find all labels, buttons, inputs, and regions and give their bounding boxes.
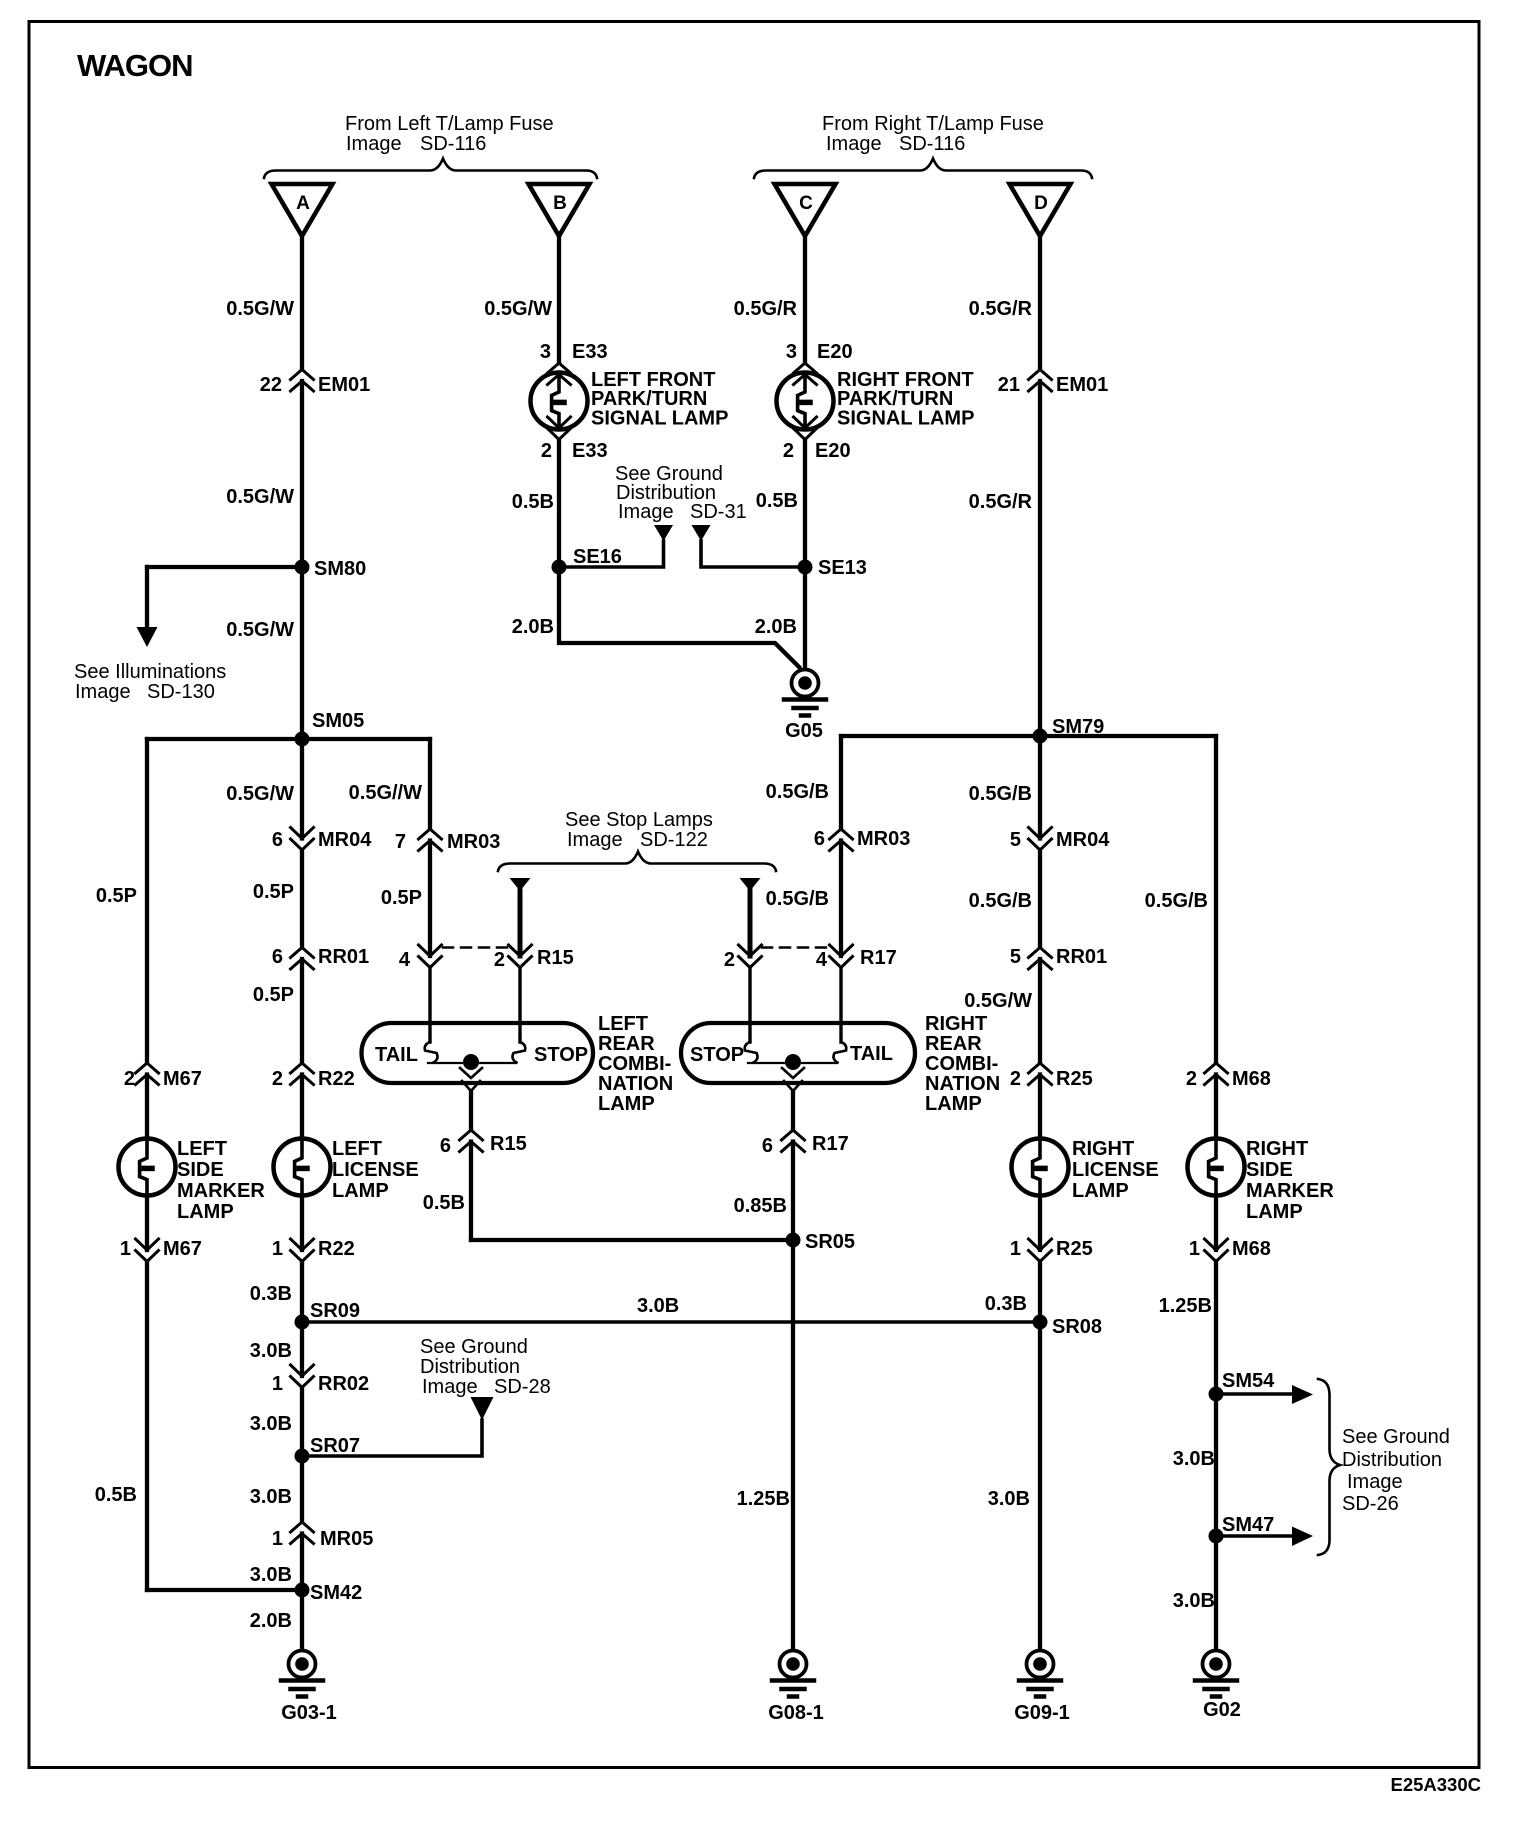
svg-text:6: 6 bbox=[440, 1135, 451, 1157]
wire A EM01 to MR04 bbox=[300, 381, 304, 839]
junction SM05 bbox=[295, 732, 310, 747]
svg-text:REAR: REAR bbox=[598, 1033, 655, 1055]
svg-text:MARKER: MARKER bbox=[177, 1180, 265, 1202]
connector R15 pin 4 bbox=[419, 945, 442, 968]
wire A lamp to R22 pin1 bbox=[300, 1195, 304, 1250]
wire A RR01 to R22 bbox=[300, 959, 304, 1063]
connector E33 pin 3 bbox=[548, 363, 571, 385]
connector E33 pin 2 bbox=[548, 417, 571, 440]
tail terminal hook right box bbox=[834, 1042, 847, 1063]
svg-text:0.5G/B: 0.5G/B bbox=[1145, 890, 1208, 912]
svg-text:2: 2 bbox=[494, 949, 505, 971]
wire A R22 to license lamp bbox=[300, 1075, 304, 1140]
arrow from stop lamps right bbox=[740, 878, 761, 891]
junction dot left box bbox=[463, 1054, 479, 1070]
svg-text:Image: Image bbox=[826, 133, 882, 155]
wire SE16 2.0B to G05 bbox=[559, 567, 799, 667]
svg-text:LAMP: LAMP bbox=[1246, 1201, 1303, 1223]
svg-text:0.5G/W: 0.5G/W bbox=[964, 990, 1032, 1012]
wire A RR02 to MR05 bbox=[300, 1388, 304, 1523]
svg-text:SR09: SR09 bbox=[310, 1300, 360, 1322]
svg-text:B: B bbox=[553, 193, 567, 214]
ground G05 bbox=[784, 670, 826, 716]
wire D lamp to R25 pin1 bbox=[1038, 1195, 1042, 1250]
svg-text:0.5G/R: 0.5G/R bbox=[969, 298, 1033, 320]
svg-text:From Left T/Lamp Fuse: From Left T/Lamp Fuse bbox=[345, 113, 554, 135]
brace from Right T/Lamp Fuse bbox=[754, 159, 1092, 179]
junction dot right box bbox=[785, 1054, 801, 1070]
svg-text:RR02: RR02 bbox=[318, 1373, 369, 1395]
svg-text:E25A330C: E25A330C bbox=[1390, 1774, 1481, 1795]
svg-text:2.0B: 2.0B bbox=[512, 616, 554, 638]
svg-text:5: 5 bbox=[1010, 946, 1021, 968]
svg-text:2: 2 bbox=[541, 440, 552, 462]
wire B triangle to E33 bbox=[557, 236, 561, 363]
svg-text:SD-28: SD-28 bbox=[494, 1376, 551, 1398]
svg-text:SD-122: SD-122 bbox=[640, 829, 708, 851]
wire stop stub right bbox=[748, 891, 753, 956]
connector M68 pin 2 bbox=[1205, 1063, 1228, 1085]
tail terminal hook left box bbox=[425, 1042, 438, 1063]
wire R15 pin6 down bbox=[469, 1142, 473, 1241]
lamp RIGHT SIDE MARKER LAMP bbox=[1188, 1139, 1245, 1196]
svg-text:1.25B: 1.25B bbox=[737, 1488, 790, 1510]
svg-text:RIGHT: RIGHT bbox=[1072, 1138, 1134, 1160]
connector R15 pin 6 bbox=[460, 1130, 483, 1152]
terminal bus line right box bbox=[748, 1062, 837, 1064]
svg-text:E20: E20 bbox=[817, 341, 853, 363]
arrow SM54 to SD-26 bbox=[1292, 1385, 1313, 1404]
svg-text:0.85B: 0.85B bbox=[734, 1195, 787, 1217]
wire D EM01 to SM79 bbox=[1038, 381, 1042, 839]
svg-text:1: 1 bbox=[272, 1373, 283, 1395]
svg-text:E20: E20 bbox=[815, 440, 851, 462]
connector R25 pin 1 bbox=[1029, 1239, 1052, 1262]
svg-text:R25: R25 bbox=[1056, 1238, 1093, 1260]
svg-text:0.5P: 0.5P bbox=[96, 885, 137, 907]
svg-text:SM54: SM54 bbox=[1222, 1370, 1275, 1392]
svg-text:Image: Image bbox=[75, 681, 131, 703]
svg-text:3.0B: 3.0B bbox=[988, 1488, 1030, 1510]
wire marker lamp to M68 pin1 bbox=[1214, 1195, 1218, 1250]
svg-text:RIGHT: RIGHT bbox=[925, 1013, 987, 1035]
svg-text:0.5G/W: 0.5G/W bbox=[226, 486, 294, 508]
svg-text:LAMP: LAMP bbox=[598, 1093, 655, 1115]
dashed connector link right bbox=[762, 946, 828, 949]
svg-text:E33: E33 bbox=[572, 440, 608, 462]
svg-text:R15: R15 bbox=[537, 947, 574, 969]
connector triangle D bbox=[1010, 184, 1071, 236]
svg-text:G09-1: G09-1 bbox=[1014, 1702, 1070, 1724]
lamp LEFT SIDE MARKER LAMP bbox=[119, 1139, 176, 1196]
svg-text:SR08: SR08 bbox=[1052, 1316, 1102, 1338]
chevrons below dot right box bbox=[782, 1068, 804, 1091]
brace from Left T/Lamp Fuse bbox=[264, 159, 597, 179]
svg-text:2: 2 bbox=[272, 1068, 283, 1090]
svg-text:M67: M67 bbox=[163, 1068, 202, 1090]
wire D R25 to license lamp bbox=[1038, 1075, 1042, 1140]
svg-text:Image: Image bbox=[618, 501, 674, 523]
svg-text:0.3B: 0.3B bbox=[250, 1283, 292, 1305]
connector MR03 pin 6 bbox=[830, 829, 853, 851]
wire SM47 stub bbox=[1216, 1534, 1292, 1538]
wire SM05 horizontal bbox=[147, 737, 430, 741]
connector RR01 pin 6 bbox=[291, 948, 314, 970]
connector R22 pin 2 bbox=[291, 1063, 314, 1085]
wire M68 to marker lamp bbox=[1214, 1075, 1218, 1140]
junction SE13 bbox=[798, 560, 813, 575]
svg-text:MR04: MR04 bbox=[1056, 829, 1110, 851]
wire D RR01 to R25 bbox=[1038, 959, 1042, 1063]
svg-text:See Ground: See Ground bbox=[420, 1336, 528, 1358]
svg-text:0.5G/B: 0.5G/B bbox=[969, 783, 1032, 805]
svg-text:SM47: SM47 bbox=[1222, 1514, 1274, 1536]
svg-text:SD-26: SD-26 bbox=[1342, 1493, 1399, 1515]
svg-text:0.5G/R: 0.5G/R bbox=[734, 298, 798, 320]
svg-text:LICENSE: LICENSE bbox=[1072, 1159, 1159, 1181]
svg-text:LEFT: LEFT bbox=[177, 1138, 227, 1160]
svg-text:4: 4 bbox=[816, 949, 828, 971]
svg-text:SIDE: SIDE bbox=[177, 1159, 224, 1181]
wire R17 pin2 into stop terminal bbox=[748, 968, 751, 1043]
svg-text:EM01: EM01 bbox=[318, 374, 370, 396]
svg-text:C: C bbox=[799, 193, 813, 214]
wire stop stub left bbox=[518, 891, 523, 956]
svg-text:0.5P: 0.5P bbox=[253, 881, 294, 903]
svg-text:7: 7 bbox=[395, 831, 406, 853]
svg-text:Distribution: Distribution bbox=[420, 1356, 520, 1378]
lamp box LEFT REAR COMBINATION bbox=[362, 1023, 594, 1083]
wire SE16 to ground stub 1 bbox=[559, 541, 664, 567]
junction SE16 bbox=[552, 560, 567, 575]
connector M67 pin 1 bbox=[136, 1239, 159, 1262]
wire A triangle to EM01 bbox=[300, 236, 304, 370]
svg-text:1: 1 bbox=[1010, 1238, 1021, 1260]
connector R15 pin 2 bbox=[509, 945, 532, 968]
svg-text:SIGNAL LAMP: SIGNAL LAMP bbox=[591, 408, 728, 430]
svg-text:21: 21 bbox=[998, 374, 1020, 396]
svg-text:LAMP: LAMP bbox=[332, 1180, 389, 1202]
wire marker lamp to M67 pin1 bbox=[145, 1195, 149, 1250]
lamp RIGHT FRONT PARK/TURN SIGNAL LAMP bbox=[777, 373, 834, 430]
svg-text:MR03: MR03 bbox=[447, 831, 500, 853]
wire C triangle to E20 bbox=[803, 236, 807, 363]
svg-text:MR03: MR03 bbox=[857, 828, 910, 850]
connector E20 pin 3 bbox=[794, 363, 817, 385]
wire SR09 to SR08 3.0B bbox=[302, 1320, 1040, 1323]
svg-text:3.0B: 3.0B bbox=[250, 1413, 292, 1435]
svg-text:TAIL: TAIL bbox=[375, 1044, 418, 1066]
svg-text:LAMP: LAMP bbox=[1072, 1180, 1129, 1202]
svg-text:0.5G/W: 0.5G/W bbox=[226, 619, 294, 641]
svg-text:R17: R17 bbox=[860, 947, 897, 969]
svg-text:STOP: STOP bbox=[534, 1044, 588, 1066]
svg-text:Distribution: Distribution bbox=[1342, 1449, 1442, 1471]
svg-text:R15: R15 bbox=[490, 1133, 527, 1155]
svg-text:SR05: SR05 bbox=[805, 1231, 855, 1253]
junction SM42 bbox=[295, 1583, 310, 1598]
connector MR04 pin 6 bbox=[291, 828, 314, 851]
connector R17 pin 6 bbox=[782, 1130, 805, 1152]
brace see stop lamps bbox=[498, 852, 776, 872]
stop terminal hook left box bbox=[513, 1042, 526, 1063]
connector triangle B bbox=[529, 184, 590, 236]
svg-text:See Illuminations: See Illuminations bbox=[74, 661, 226, 683]
svg-text:SD-116: SD-116 bbox=[899, 133, 965, 155]
lamp LEFT LICENSE LAMP bbox=[274, 1139, 331, 1196]
svg-text:2: 2 bbox=[783, 440, 794, 462]
svg-text:R25: R25 bbox=[1056, 1068, 1093, 1090]
svg-text:COMBI-: COMBI- bbox=[925, 1053, 998, 1075]
dashed connector link left bbox=[443, 946, 509, 949]
wire D MR04 to RR01 bbox=[1038, 850, 1042, 948]
svg-text:LEFT: LEFT bbox=[598, 1013, 648, 1035]
svg-text:From Right T/Lamp Fuse: From Right T/Lamp Fuse bbox=[822, 113, 1044, 135]
svg-text:0.5B: 0.5B bbox=[423, 1192, 465, 1214]
connector R17 pin 2 bbox=[739, 945, 762, 968]
chevrons below dot left box bbox=[460, 1068, 482, 1091]
svg-text:SD-31: SD-31 bbox=[690, 501, 747, 523]
svg-text:3.0B: 3.0B bbox=[250, 1340, 292, 1362]
svg-text:MR05: MR05 bbox=[320, 1528, 373, 1550]
svg-text:0.5B: 0.5B bbox=[512, 491, 554, 513]
svg-text:Image: Image bbox=[422, 1376, 478, 1398]
svg-text:6: 6 bbox=[272, 829, 283, 851]
arrow SM47 to SD-26 bbox=[1292, 1527, 1313, 1547]
svg-text:M67: M67 bbox=[163, 1238, 202, 1260]
svg-text:1: 1 bbox=[272, 1528, 283, 1550]
wire left branch down to SM42 bbox=[145, 1262, 149, 1591]
arrow SD-31 stub 1 bbox=[654, 525, 673, 541]
svg-text:6: 6 bbox=[272, 946, 283, 968]
svg-text:STOP: STOP bbox=[690, 1044, 744, 1066]
svg-text:LICENSE: LICENSE bbox=[332, 1159, 419, 1181]
svg-text:SM05: SM05 bbox=[312, 710, 364, 732]
wire left branch SM05 down bbox=[145, 739, 149, 1063]
svg-text:5: 5 bbox=[1010, 829, 1021, 851]
svg-text:2: 2 bbox=[124, 1068, 135, 1090]
lamp LEFT FRONT PARK/TURN SIGNAL LAMP bbox=[531, 373, 588, 430]
svg-text:0.5G//W: 0.5G//W bbox=[349, 782, 422, 804]
svg-text:M68: M68 bbox=[1232, 1238, 1271, 1260]
connector EM01 pin 22 bbox=[291, 370, 314, 392]
svg-text:SIDE: SIDE bbox=[1246, 1159, 1293, 1181]
svg-text:See Stop Lamps: See Stop Lamps bbox=[565, 809, 713, 831]
svg-text:SM42: SM42 bbox=[310, 1582, 362, 1604]
wire box to R17 pin6 bbox=[791, 1091, 795, 1130]
junction SM79 bbox=[1033, 729, 1048, 744]
junction SR08 bbox=[1033, 1315, 1048, 1330]
svg-text:G05: G05 bbox=[785, 720, 823, 742]
wire M67 to marker lamp bbox=[145, 1075, 149, 1140]
svg-text:SD-116: SD-116 bbox=[420, 133, 486, 155]
svg-text:SR07: SR07 bbox=[310, 1435, 360, 1457]
wire right MR03 branch from SM79 bbox=[839, 736, 843, 829]
svg-text:3.0B: 3.0B bbox=[1173, 1590, 1215, 1612]
wire branch MR03 from SM05 bbox=[428, 739, 432, 829]
svg-text:3.0B: 3.0B bbox=[250, 1486, 292, 1508]
svg-text:MR04: MR04 bbox=[318, 829, 372, 851]
svg-text:0.5G/B: 0.5G/B bbox=[766, 888, 829, 910]
wire D triangle to EM01 bbox=[1038, 236, 1042, 370]
svg-text:0.5G/W: 0.5G/W bbox=[226, 783, 294, 805]
connector EM01 pin 21 bbox=[1029, 370, 1052, 392]
svg-text:RR01: RR01 bbox=[1056, 946, 1107, 968]
arrow to See Illuminations bbox=[137, 627, 158, 647]
svg-text:3: 3 bbox=[540, 341, 551, 363]
connector M67 pin 2 bbox=[136, 1063, 159, 1085]
arrow to SD-28 bbox=[471, 1397, 494, 1420]
connector MR04 pin 5 bbox=[1029, 828, 1052, 851]
svg-text:WAGON: WAGON bbox=[77, 48, 193, 83]
svg-text:E33: E33 bbox=[572, 341, 608, 363]
wire M68 down to ground G02 bbox=[1214, 1262, 1218, 1651]
svg-text:Image: Image bbox=[567, 829, 623, 851]
wire A MR05 to ground bbox=[300, 1534, 304, 1651]
svg-text:D: D bbox=[1034, 193, 1048, 214]
wire D R25 to ground G09-1 bbox=[1038, 1262, 1042, 1651]
svg-text:SIGNAL LAMP: SIGNAL LAMP bbox=[837, 408, 974, 430]
svg-text:2: 2 bbox=[724, 949, 735, 971]
svg-text:MARKER: MARKER bbox=[1246, 1180, 1334, 1202]
svg-text:RIGHT: RIGHT bbox=[1246, 1138, 1308, 1160]
svg-text:SM80: SM80 bbox=[314, 558, 366, 580]
wire SM54 stub bbox=[1216, 1392, 1292, 1396]
wire R17 pin6 to SR05 bbox=[791, 1142, 795, 1651]
wire 0.5B horizontal to SR05 bbox=[471, 1238, 793, 1242]
stop terminal hook right box bbox=[745, 1042, 758, 1063]
svg-text:LAMP: LAMP bbox=[177, 1201, 234, 1223]
connector triangle A bbox=[272, 184, 333, 236]
wire SM42 horizontal bbox=[147, 1588, 302, 1592]
svg-text:4: 4 bbox=[399, 949, 411, 971]
svg-text:Image: Image bbox=[346, 133, 402, 155]
svg-text:A: A bbox=[296, 193, 310, 214]
svg-text:0.5G/W: 0.5G/W bbox=[226, 298, 294, 320]
svg-text:1: 1 bbox=[120, 1238, 131, 1260]
connector M68 pin 1 bbox=[1205, 1239, 1228, 1262]
svg-text:M68: M68 bbox=[1232, 1068, 1271, 1090]
wire ground stub 2 to SE13 bbox=[701, 541, 805, 567]
ground G02 bbox=[1195, 1651, 1237, 1697]
svg-text:0.5G/B: 0.5G/B bbox=[766, 781, 829, 803]
svg-text:SE13: SE13 bbox=[818, 557, 867, 579]
wire down to illumination arrow bbox=[145, 567, 149, 628]
svg-text:3: 3 bbox=[786, 341, 797, 363]
svg-text:0.5B: 0.5B bbox=[95, 1484, 137, 1506]
connector RR01 pin 5 bbox=[1029, 948, 1052, 970]
svg-text:R22: R22 bbox=[318, 1068, 355, 1090]
wire R17 pin4 into tail terminal bbox=[839, 968, 842, 1043]
svg-text:See Ground: See Ground bbox=[1342, 1426, 1450, 1448]
svg-text:2: 2 bbox=[1010, 1068, 1021, 1090]
svg-text:3.0B: 3.0B bbox=[1173, 1448, 1215, 1470]
svg-text:LEFT: LEFT bbox=[332, 1138, 382, 1160]
svg-text:NATION: NATION bbox=[598, 1073, 673, 1095]
wire A R22 to RR02 bbox=[300, 1262, 304, 1377]
junction SR07 bbox=[295, 1449, 310, 1464]
svg-text:TAIL: TAIL bbox=[850, 1043, 893, 1065]
svg-text:6: 6 bbox=[814, 828, 825, 850]
svg-text:1: 1 bbox=[1189, 1238, 1200, 1260]
arrow SD-31 stub 2 bbox=[692, 525, 711, 541]
svg-text:22: 22 bbox=[260, 374, 282, 396]
svg-text:NATION: NATION bbox=[925, 1073, 1000, 1095]
junction SM54 bbox=[1209, 1387, 1224, 1402]
svg-text:SE16: SE16 bbox=[573, 546, 622, 568]
svg-text:2.0B: 2.0B bbox=[250, 1610, 292, 1632]
ground G09-1 bbox=[1019, 1651, 1061, 1697]
junction SM47 bbox=[1209, 1529, 1224, 1544]
brace SD-26 bbox=[1318, 1379, 1340, 1555]
svg-text:1: 1 bbox=[272, 1238, 283, 1260]
svg-text:0.5B: 0.5B bbox=[756, 490, 798, 512]
svg-text:Image: Image bbox=[1347, 1471, 1403, 1493]
connector R25 pin 2 bbox=[1029, 1063, 1052, 1085]
wire SE13 to G05 bbox=[803, 567, 807, 669]
svg-text:0.5G/R: 0.5G/R bbox=[969, 491, 1033, 513]
connector RR02 pin 1 bbox=[291, 1365, 314, 1388]
svg-text:0.5P: 0.5P bbox=[381, 887, 422, 909]
wire MR03 to R15 pin4 bbox=[428, 841, 432, 957]
wire SR07 to SD-28 arrow bbox=[302, 1420, 482, 1456]
svg-text:G08-1: G08-1 bbox=[768, 1702, 824, 1724]
svg-text:0.5G/B: 0.5G/B bbox=[969, 890, 1032, 912]
svg-text:2.0B: 2.0B bbox=[755, 616, 797, 638]
wire B E33 to SE16 bbox=[557, 440, 561, 568]
connector E20 pin 2 bbox=[794, 417, 817, 440]
ground G08-1 bbox=[772, 1651, 814, 1697]
connector MR05 pin 1 bbox=[291, 1522, 314, 1544]
wire C E20 to SE13 bbox=[803, 440, 807, 568]
lamp box RIGHT REAR COMBINATION bbox=[681, 1023, 915, 1083]
wire box to R15 pin6 bbox=[469, 1091, 473, 1130]
svg-text:3.0B: 3.0B bbox=[637, 1295, 679, 1317]
connector MR03 pin 7 bbox=[419, 829, 442, 851]
ground G03-1 bbox=[281, 1651, 323, 1697]
connector R17 pin 4 bbox=[830, 945, 853, 968]
wire SM79 horizontal bbox=[841, 734, 1216, 738]
svg-text:6: 6 bbox=[762, 1135, 773, 1157]
svg-text:R22: R22 bbox=[318, 1238, 355, 1260]
svg-text:REAR: REAR bbox=[925, 1033, 982, 1055]
wire A MR04 to RR01 bbox=[300, 850, 304, 948]
svg-text:RR01: RR01 bbox=[318, 946, 369, 968]
junction SM80 bbox=[295, 560, 310, 575]
svg-text:R17: R17 bbox=[812, 1133, 849, 1155]
svg-text:0.3B: 0.3B bbox=[985, 1293, 1027, 1315]
svg-text:EM01: EM01 bbox=[1056, 374, 1108, 396]
svg-text:2: 2 bbox=[1186, 1068, 1197, 1090]
wire R15 pin4 into tail terminal bbox=[428, 968, 431, 1043]
arrow from stop lamps left bbox=[510, 878, 531, 891]
wire R15 pin2 into stop terminal bbox=[518, 968, 521, 1043]
connector triangle C bbox=[775, 184, 836, 236]
svg-text:COMBI-: COMBI- bbox=[598, 1053, 671, 1075]
junction SR09 bbox=[295, 1315, 310, 1330]
connector R22 pin 1 bbox=[291, 1239, 314, 1262]
svg-text:0.5P: 0.5P bbox=[253, 984, 294, 1006]
svg-text:1.25B: 1.25B bbox=[1159, 1295, 1212, 1317]
svg-text:G03-1: G03-1 bbox=[281, 1702, 337, 1724]
svg-text:LAMP: LAMP bbox=[925, 1093, 982, 1115]
wire M68 branch from SM79 bbox=[1214, 736, 1218, 1063]
svg-text:SD-130: SD-130 bbox=[147, 681, 215, 703]
svg-text:3.0B: 3.0B bbox=[250, 1564, 292, 1586]
wire MR03 to R17 pin4 bbox=[839, 841, 843, 957]
wire SM80 branch left bbox=[147, 565, 302, 569]
svg-text:0.5G/W: 0.5G/W bbox=[484, 298, 552, 320]
